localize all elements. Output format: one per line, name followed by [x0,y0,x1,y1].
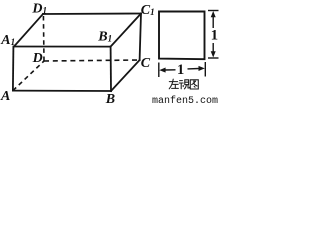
svg-text:D1: D1 [31,1,47,16]
svg-text:A: A [0,89,10,104]
svg-text:1: 1 [177,62,184,78]
svg-text:C: C [141,56,151,71]
svg-text:manfen5.com: manfen5.com [152,95,218,105]
svg-text:1: 1 [211,28,219,44]
svg-text:D: D [32,51,43,66]
svg-text:B1: B1 [97,30,112,45]
svg-text:A1: A1 [0,33,15,48]
svg-text:B: B [105,92,115,105]
svg-text:C1: C1 [141,3,155,18]
